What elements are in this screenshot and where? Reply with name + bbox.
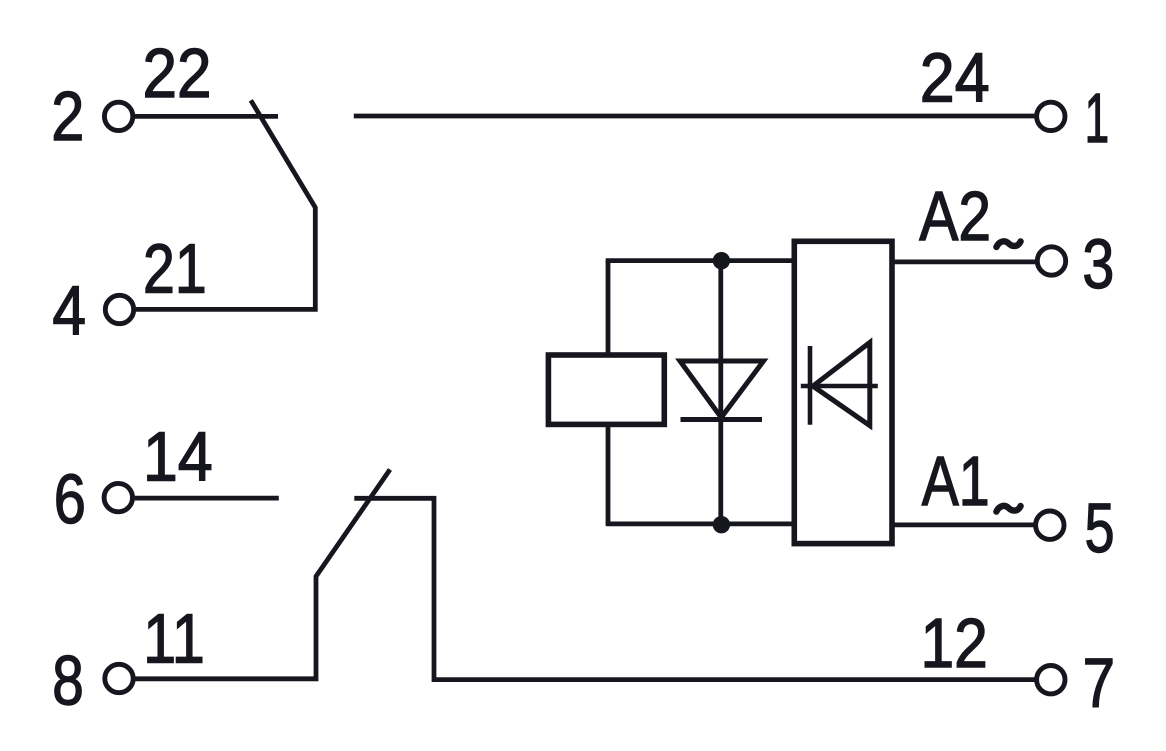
- svg-text:1: 1: [1085, 79, 1110, 157]
- svg-text:6: 6: [54, 460, 86, 538]
- svg-text:2: 2: [51, 77, 84, 155]
- svg-text:11: 11: [143, 599, 205, 677]
- svg-text:A1: A1: [922, 442, 990, 520]
- svg-text:7: 7: [1083, 643, 1115, 721]
- svg-text:14: 14: [143, 418, 213, 496]
- svg-text:22: 22: [143, 34, 212, 112]
- svg-text:3: 3: [1082, 225, 1114, 303]
- svg-text:8: 8: [52, 641, 84, 719]
- svg-text:21: 21: [143, 230, 207, 308]
- svg-text:A2: A2: [919, 177, 991, 255]
- svg-text:24: 24: [920, 38, 990, 116]
- svg-text:4: 4: [52, 271, 86, 349]
- svg-text:12: 12: [920, 604, 987, 682]
- svg-text:5: 5: [1085, 489, 1115, 567]
